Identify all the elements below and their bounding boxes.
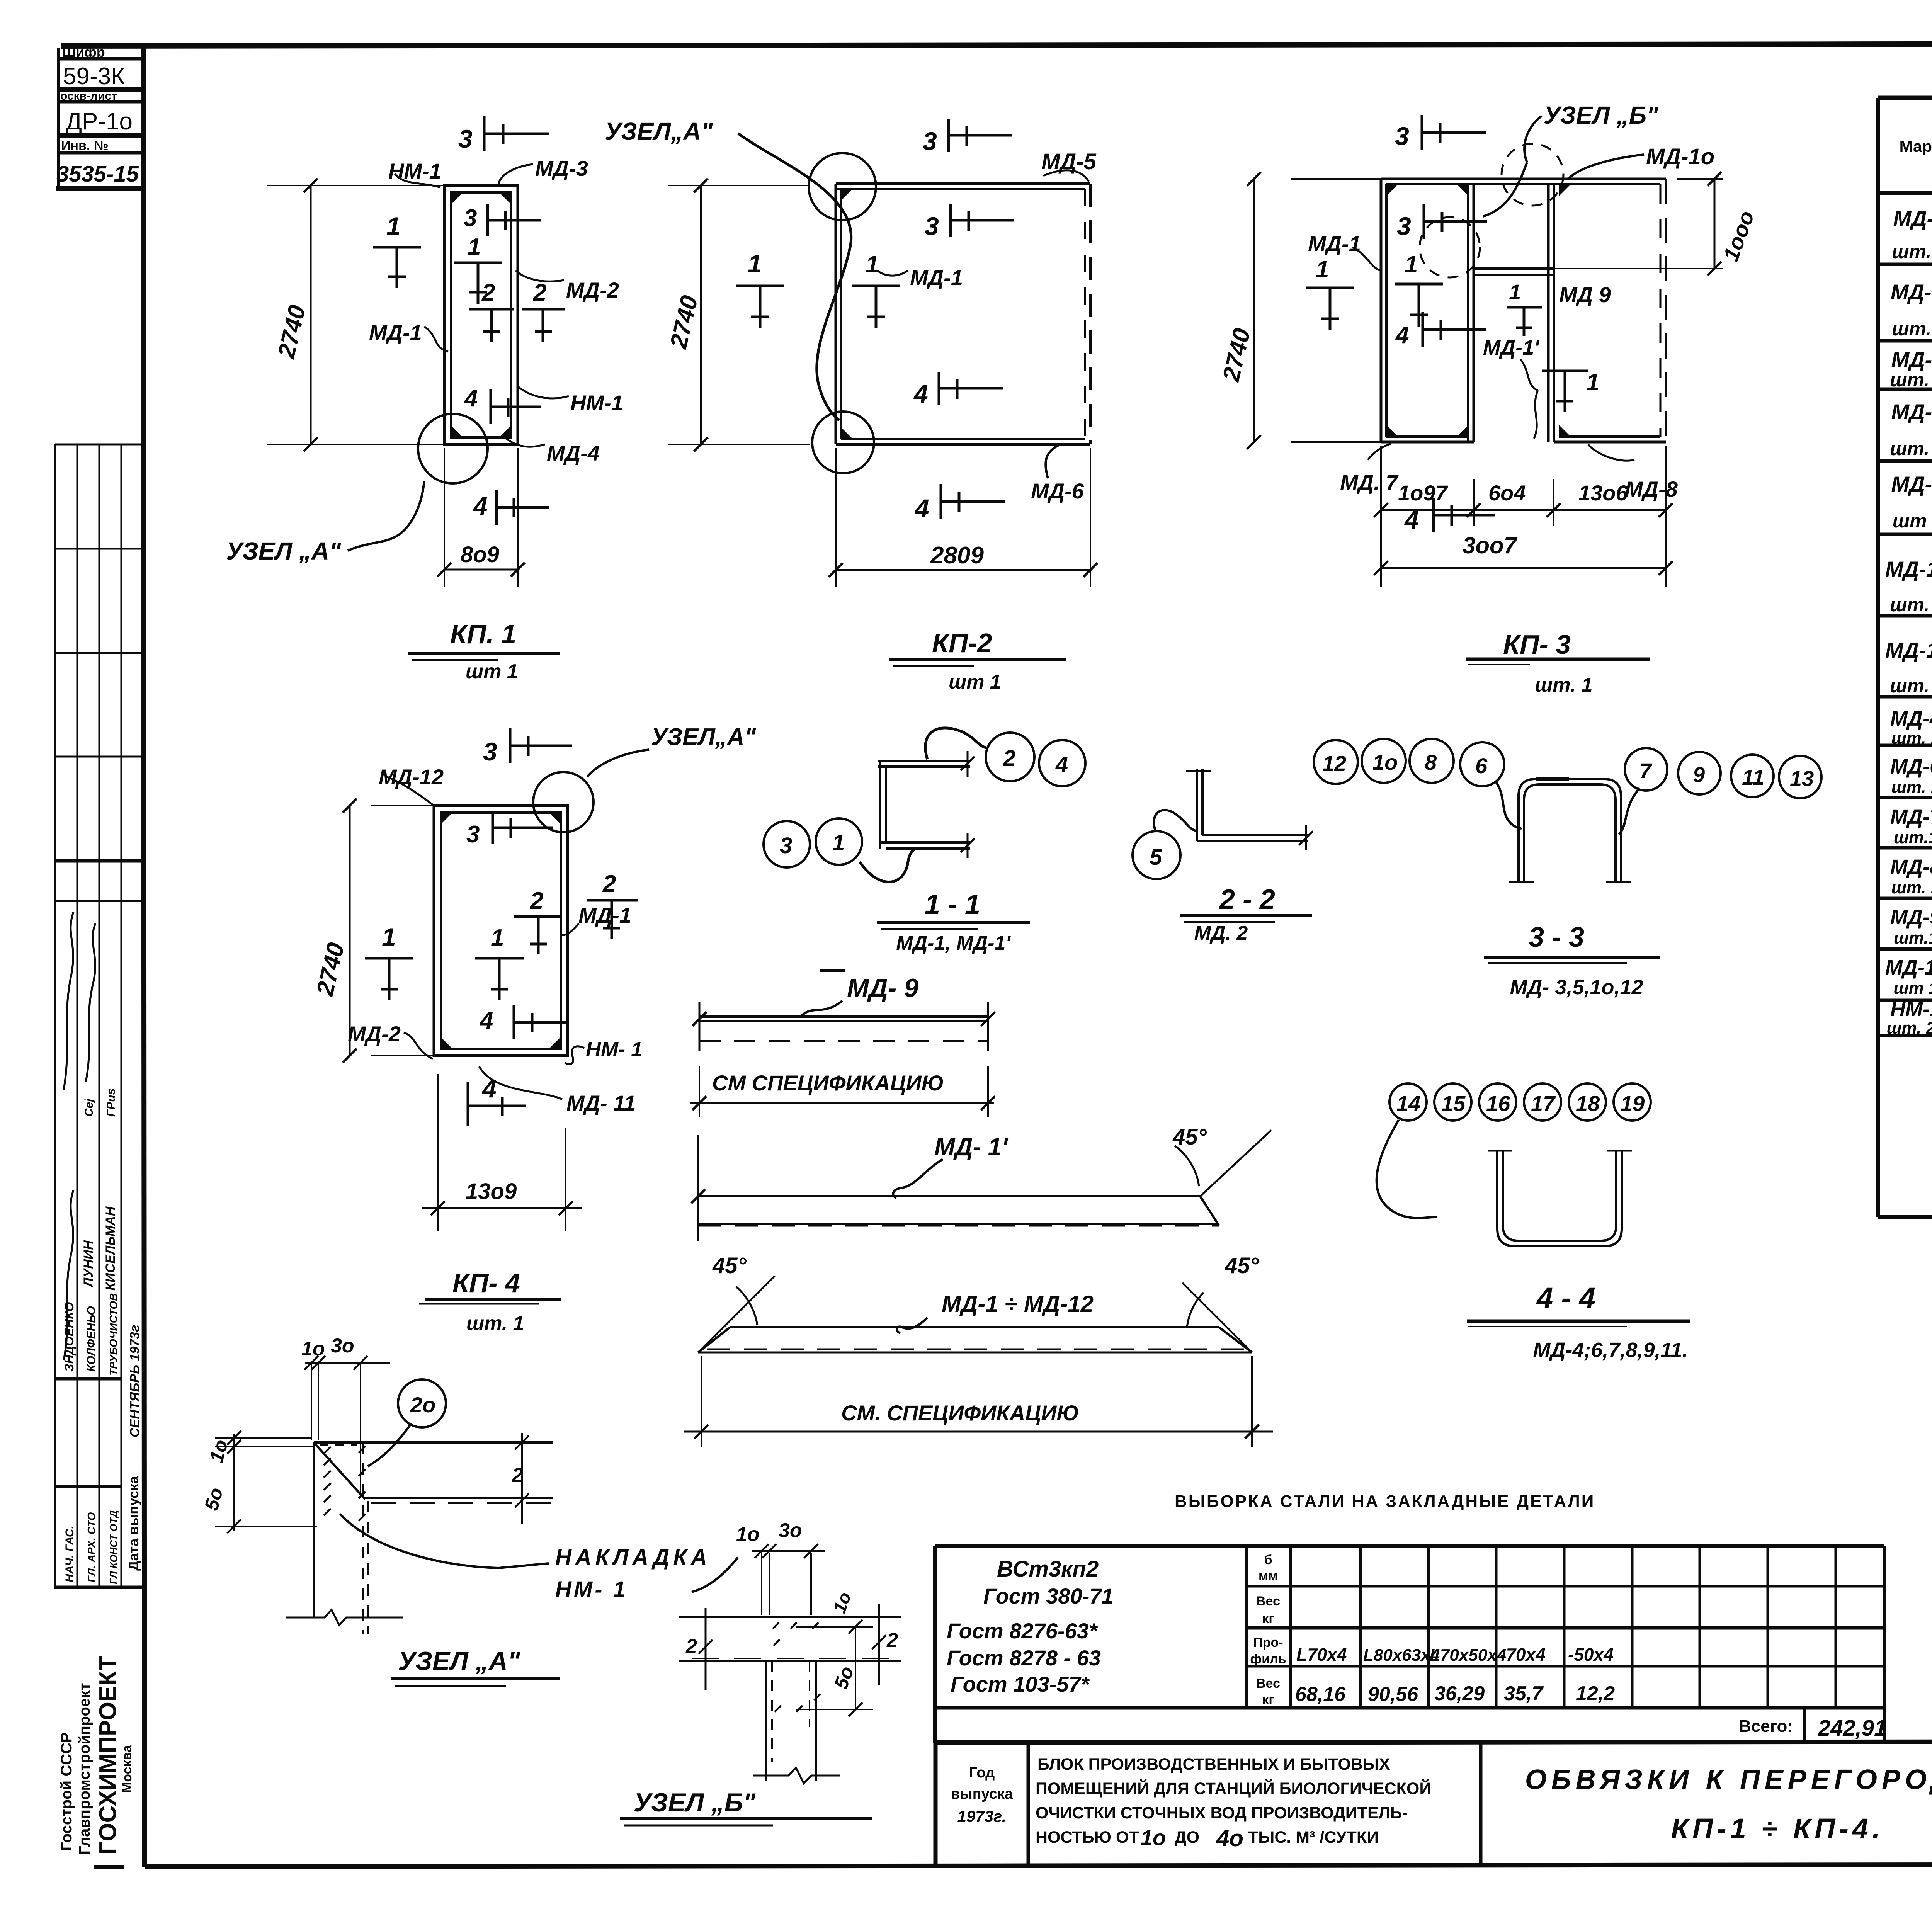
svg-text:МД-12: МД-12 bbox=[379, 765, 444, 789]
svg-text:1о: 1о bbox=[829, 1589, 855, 1616]
svg-text:5: 5 bbox=[1150, 845, 1162, 870]
svg-text:45°: 45° bbox=[1225, 1253, 1259, 1278]
svg-text:ОЧИСТКИ СТОЧНЫХ ВОД ПРОИЗВО: ОЧИСТКИ СТОЧНЫХ ВОД ПРОИЗВОДИТЕЛЬ- bbox=[1036, 1804, 1408, 1822]
svg-text:ТРУБОЧИСТОВ: ТРУБОЧИСТОВ bbox=[107, 1293, 119, 1376]
svg-text:НМ- 1: НМ- 1 bbox=[586, 1038, 643, 1061]
svg-text:МД-1': МД-1' bbox=[1483, 336, 1540, 359]
svg-text:2: 2 bbox=[602, 871, 616, 897]
svg-text:45°: 45° bbox=[712, 1253, 747, 1278]
svg-text:ТЫС. М³ /СУТКИ: ТЫС. М³ /СУТКИ bbox=[1248, 1828, 1379, 1847]
svg-text:L70х50х4: L70х50х4 bbox=[1430, 1646, 1506, 1665]
svg-text:1: 1 bbox=[748, 249, 762, 278]
svg-text:ГЛ КОНСТ ОТД: ГЛ КОНСТ ОТД bbox=[108, 1510, 119, 1584]
svg-text:6: 6 bbox=[1475, 753, 1488, 778]
svg-text:4: 4 bbox=[473, 492, 488, 520]
svg-text:УЗЕЛ„А": УЗЕЛ„А" bbox=[605, 117, 713, 145]
svg-text:17: 17 bbox=[1531, 1091, 1556, 1116]
svg-text:ГОСХИМПРОЕКТ: ГОСХИМПРОЕКТ bbox=[95, 1656, 121, 1855]
svg-text:2 - 2: 2 - 2 bbox=[1219, 884, 1275, 915]
svg-text:КП- 3: КП- 3 bbox=[1503, 629, 1571, 660]
svg-text:90,56: 90,56 bbox=[1368, 1683, 1418, 1706]
svg-text:БЛОК ПРОИЗВОДСТВЕННЫХ И БЫТ: БЛОК ПРОИЗВОДСТВЕННЫХ И БЫТОВЫХ bbox=[1037, 1755, 1390, 1774]
svg-text:шт.1: шт.1 bbox=[1894, 929, 1932, 947]
svg-text:3: 3 bbox=[923, 127, 937, 155]
svg-text:МД-1: МД-1 bbox=[369, 320, 422, 345]
svg-text:-70х4: -70х4 bbox=[1500, 1645, 1546, 1665]
svg-text:МД- 3,5,1о,12: МД- 3,5,1о,12 bbox=[1510, 976, 1643, 999]
svg-text:Гост 8276-63*: Гост 8276-63* bbox=[947, 1619, 1098, 1643]
svg-text:НМ- 1: НМ- 1 bbox=[555, 1577, 628, 1602]
svg-text:1: 1 bbox=[468, 234, 481, 260]
svg-text:4: 4 bbox=[1404, 505, 1419, 534]
svg-text:ВЫБОРКА СТАЛИ НА ЗАКЛАДНЫЕ: ВЫБОРКА СТАЛИ НА ЗАКЛАДНЫЕ ДЕТАЛИ bbox=[1175, 1492, 1595, 1511]
svg-text:Москва: Москва bbox=[120, 1745, 134, 1793]
svg-text:2: 2 bbox=[481, 279, 495, 306]
svg-text:2: 2 bbox=[533, 279, 546, 306]
svg-text:шт. 1: шт. 1 bbox=[1890, 675, 1932, 697]
svg-text:МД-1: МД-1 bbox=[1893, 206, 1932, 231]
svg-text:4: 4 bbox=[1055, 752, 1068, 777]
svg-text:8: 8 bbox=[1425, 750, 1437, 774]
svg-text:НМ-1: НМ-1 bbox=[388, 159, 441, 183]
svg-text:МД-1: МД-1 bbox=[1308, 231, 1361, 256]
svg-text:МД-2: МД-2 bbox=[348, 1022, 401, 1046]
svg-text:б: б bbox=[1264, 1553, 1272, 1567]
svg-text:1: 1 bbox=[832, 830, 845, 855]
svg-text:11: 11 bbox=[1742, 765, 1764, 789]
svg-text:МД-8: МД-8 bbox=[1890, 855, 1932, 879]
svg-text:шт. 4: шт. 4 bbox=[1892, 241, 1932, 262]
svg-text:1973г.: 1973г. bbox=[957, 1807, 1007, 1825]
svg-text:1о: 1о bbox=[736, 1523, 760, 1546]
svg-text:-50х4: -50х4 bbox=[1568, 1645, 1614, 1665]
svg-text:7: 7 bbox=[1639, 759, 1653, 783]
svg-text:НМ-1: НМ-1 bbox=[570, 391, 623, 415]
svg-text:оскв-лист: оскв-лист bbox=[60, 90, 117, 102]
svg-text:45°: 45° bbox=[1172, 1124, 1207, 1150]
svg-text:13о9: 13о9 bbox=[466, 1179, 517, 1204]
svg-text:НМ-1: НМ-1 bbox=[1890, 998, 1932, 1021]
svg-text:МД. 7: МД. 7 bbox=[1340, 470, 1399, 495]
svg-text:филь: филь bbox=[1250, 1652, 1286, 1667]
svg-text:6о4: 6о4 bbox=[1488, 481, 1526, 505]
svg-text:2740: 2740 bbox=[273, 303, 311, 361]
svg-text:2: 2 bbox=[530, 888, 543, 914]
svg-text:1: 1 bbox=[866, 251, 879, 278]
svg-text:4: 4 bbox=[481, 1074, 497, 1103]
svg-text:МД-6: МД-6 bbox=[1031, 479, 1084, 503]
svg-text:КИСЕЛЬМАН: КИСЕЛЬМАН bbox=[103, 1206, 118, 1291]
svg-text:3: 3 bbox=[1395, 122, 1409, 150]
svg-text:4: 4 bbox=[914, 494, 929, 522]
svg-text:4: 4 bbox=[464, 385, 478, 412]
svg-text:68,16: 68,16 bbox=[1295, 1683, 1346, 1706]
svg-text:Шифр: Шифр bbox=[62, 44, 105, 60]
svg-text:НОСТЬЮ ОТ: НОСТЬЮ ОТ bbox=[1036, 1828, 1139, 1847]
svg-text:3: 3 bbox=[458, 124, 473, 153]
svg-text:4о: 4о bbox=[1216, 1825, 1243, 1851]
svg-text:1: 1 bbox=[1405, 251, 1418, 278]
svg-text:3535-15: 3535-15 bbox=[56, 162, 139, 187]
svg-text:9: 9 bbox=[1693, 762, 1705, 787]
svg-text:L70х4: L70х4 bbox=[1296, 1645, 1347, 1665]
svg-text:15: 15 bbox=[1441, 1091, 1466, 1116]
svg-text:13о6: 13о6 bbox=[1578, 481, 1628, 505]
svg-text:8о9: 8о9 bbox=[461, 542, 499, 567]
svg-text:1: 1 bbox=[386, 212, 401, 240]
svg-text:Про-: Про- bbox=[1253, 1635, 1283, 1650]
svg-text:МД-1': МД-1' bbox=[1891, 280, 1932, 304]
svg-text:МД-11: МД-11 bbox=[1885, 956, 1932, 979]
svg-text:2: 2 bbox=[1003, 746, 1015, 771]
svg-text:УЗЕЛ „А": УЗЕЛ „А" bbox=[226, 537, 341, 565]
svg-text:1: 1 bbox=[1586, 369, 1599, 396]
svg-text:Гост 380-71: Гост 380-71 bbox=[983, 1584, 1114, 1608]
svg-text:шт. 1: шт. 1 bbox=[1891, 778, 1932, 797]
svg-text:4: 4 bbox=[913, 379, 928, 408]
svg-text:2: 2 bbox=[512, 1464, 523, 1486]
svg-text:шт. 1: шт. 1 bbox=[1891, 729, 1932, 748]
svg-text:2740: 2740 bbox=[311, 940, 349, 998]
svg-text:МД- 9: МД- 9 bbox=[847, 973, 918, 1003]
svg-text:Сej: Сej bbox=[83, 1099, 95, 1117]
svg-text:1о: 1о bbox=[206, 1437, 232, 1465]
svg-text:шт. 26: шт. 26 bbox=[1886, 1019, 1932, 1037]
svg-text:1 - 1: 1 - 1 bbox=[925, 889, 980, 920]
svg-text:МД 9: МД 9 bbox=[1559, 282, 1611, 307]
svg-text:4: 4 bbox=[479, 1007, 493, 1034]
svg-text:ГРus: ГРus bbox=[105, 1088, 117, 1117]
svg-text:3: 3 bbox=[483, 737, 497, 766]
svg-text:5о: 5о bbox=[201, 1485, 227, 1513]
svg-text:МД. 2: МД. 2 bbox=[1194, 922, 1248, 944]
svg-text:шт 1: шт 1 bbox=[949, 671, 1001, 693]
svg-text:Вес: Вес bbox=[1256, 1676, 1280, 1691]
svg-text:МД-1 ÷ МД-12: МД-1 ÷ МД-12 bbox=[942, 1291, 1094, 1317]
svg-text:19: 19 bbox=[1621, 1091, 1645, 1116]
svg-text:шт 1: шт 1 bbox=[466, 660, 518, 683]
svg-text:1о: 1о bbox=[1141, 1825, 1166, 1850]
svg-text:МД-4: МД-4 bbox=[547, 441, 600, 465]
svg-text:МД-9: МД-9 bbox=[1890, 906, 1932, 929]
svg-text:МД-12: МД-12 bbox=[1885, 638, 1932, 662]
svg-text:шт. 1: шт. 1 bbox=[1891, 878, 1932, 897]
svg-text:КП-1 ÷ КП-4.: КП-1 ÷ КП-4. bbox=[1671, 1813, 1884, 1845]
svg-text:Госстрой СССР: Госстрой СССР bbox=[58, 1732, 75, 1851]
svg-text:Гост 103-57*: Гост 103-57* bbox=[951, 1672, 1090, 1696]
svg-text:СЕНТЯБРЬ 1973г: СЕНТЯБРЬ 1973г bbox=[128, 1325, 142, 1437]
svg-text:L80х63х4: L80х63х4 bbox=[1363, 1646, 1440, 1665]
svg-text:УЗЕЛ„А": УЗЕЛ„А" bbox=[651, 724, 756, 750]
svg-text:МД-3: МД-3 bbox=[535, 156, 588, 180]
svg-text:шт.1: шт.1 bbox=[1894, 828, 1932, 847]
svg-text:МД- 11: МД- 11 bbox=[566, 1091, 636, 1115]
svg-text:ДР-1о: ДР-1о bbox=[66, 108, 133, 135]
svg-text:Вес: Вес bbox=[1256, 1594, 1280, 1609]
svg-text:2о: 2о bbox=[410, 1393, 435, 1417]
svg-text:КП. 1: КП. 1 bbox=[450, 619, 516, 649]
svg-text:16: 16 bbox=[1486, 1091, 1510, 1116]
svg-text:13: 13 bbox=[1790, 766, 1814, 791]
svg-text:1о97: 1о97 bbox=[1398, 481, 1448, 505]
svg-text:УЗЕЛ „Б": УЗЕЛ „Б" bbox=[634, 1788, 756, 1817]
svg-text:3о: 3о bbox=[779, 1519, 802, 1542]
svg-text:МД-3: МД-3 bbox=[1891, 400, 1932, 424]
svg-text:шт. 2: шт. 2 bbox=[1892, 318, 1932, 340]
svg-text:МД-5: МД-5 bbox=[1891, 472, 1932, 496]
svg-text:3 - 3: 3 - 3 bbox=[1529, 922, 1584, 953]
svg-text:КОЛФЕНЬО: КОЛФЕНЬО bbox=[85, 1306, 98, 1372]
svg-text:ОБВЯЗКИ К ПЕРЕГОРОДКАМ: ОБВЯЗКИ К ПЕРЕГОРОДКАМ bbox=[1525, 1764, 1932, 1795]
svg-text:МД- 1': МД- 1' bbox=[934, 1133, 1008, 1161]
svg-text:2809: 2809 bbox=[930, 542, 984, 569]
svg-text:шт 1: шт 1 bbox=[1893, 510, 1932, 532]
svg-text:35,7: 35,7 bbox=[1504, 1682, 1544, 1705]
svg-text:Инв. №: Инв. № bbox=[61, 138, 109, 153]
svg-text:3: 3 bbox=[466, 821, 480, 848]
svg-text:мм: мм bbox=[1259, 1569, 1278, 1583]
svg-text:ПОМЕЩЕНИЙ ДЛЯ СТАНЦИЙ БИОЛОГИЧ: ПОМЕЩЕНИЙ ДЛЯ СТАНЦИЙ БИОЛОГИЧЕСКОЙ bbox=[1036, 1779, 1431, 1798]
svg-text:МД-4: МД-4 bbox=[1890, 707, 1932, 730]
svg-text:МД-1: МД-1 bbox=[910, 265, 963, 290]
svg-text:шт 1: шт 1 bbox=[1894, 979, 1932, 998]
svg-text:КП-2: КП-2 bbox=[932, 628, 992, 658]
svg-text:МД-7: МД-7 bbox=[1890, 805, 1932, 828]
svg-text:4: 4 bbox=[1395, 322, 1409, 349]
svg-text:Год: Год bbox=[969, 1765, 995, 1781]
svg-text:2740: 2740 bbox=[665, 293, 703, 351]
svg-text:3: 3 bbox=[1397, 212, 1411, 240]
svg-text:НАКЛАДКА: НАКЛАДКА bbox=[555, 1545, 711, 1570]
svg-text:1: 1 bbox=[1316, 256, 1329, 283]
svg-text:СМ СПЕЦИФИКАЦИЮ: СМ СПЕЦИФИКАЦИЮ bbox=[712, 1071, 944, 1095]
svg-text:МД-4;6,7,8,9,11.: МД-4;6,7,8,9,11. bbox=[1533, 1338, 1688, 1362]
svg-text:3оо7: 3оо7 bbox=[1463, 532, 1518, 558]
svg-text:МД-6: МД-6 bbox=[1890, 755, 1932, 778]
svg-text:ВСт3кп2: ВСт3кп2 bbox=[997, 1556, 1099, 1582]
svg-text:3о: 3о bbox=[331, 1335, 354, 1357]
svg-text:3: 3 bbox=[780, 833, 792, 858]
svg-text:СМ. СПЕЦИФИКАЦИЮ: СМ. СПЕЦИФИКАЦИЮ bbox=[841, 1401, 1079, 1425]
svg-text:выпуска: выпуска bbox=[951, 1786, 1013, 1802]
svg-text:МД-1: МД-1 bbox=[578, 903, 631, 927]
svg-text:Марка: Марка bbox=[1900, 137, 1932, 155]
svg-text:1: 1 bbox=[382, 923, 396, 951]
svg-text:МД-2: МД-2 bbox=[1891, 347, 1932, 372]
svg-text:кг: кг bbox=[1262, 1692, 1274, 1707]
svg-text:14: 14 bbox=[1396, 1091, 1420, 1116]
svg-text:МД-8: МД-8 bbox=[1625, 477, 1678, 501]
svg-text:МД-10: МД-10 bbox=[1885, 557, 1932, 581]
svg-text:1: 1 bbox=[491, 925, 504, 951]
svg-text:КП- 4: КП- 4 bbox=[452, 1268, 520, 1298]
svg-text:ЗНДОЕНКО: ЗНДОЕНКО bbox=[62, 1302, 76, 1372]
svg-text:МД-1, МД-1': МД-1, МД-1' bbox=[896, 932, 1011, 954]
svg-text:18: 18 bbox=[1576, 1091, 1600, 1116]
svg-text:НАЧ. ГАС.: НАЧ. ГАС. bbox=[63, 1526, 76, 1582]
svg-text:ДО: ДО bbox=[1175, 1828, 1199, 1847]
svg-text:МД-2: МД-2 bbox=[566, 278, 619, 302]
svg-text:36,29: 36,29 bbox=[1434, 1682, 1485, 1705]
svg-text:шт. 1: шт. 1 bbox=[1890, 438, 1932, 459]
svg-text:2740: 2740 bbox=[1218, 326, 1255, 384]
svg-text:шт. 1: шт. 1 bbox=[466, 1312, 524, 1335]
svg-text:Главпромстройпроект: Главпромстройпроект bbox=[76, 1683, 93, 1855]
svg-text:1: 1 bbox=[1509, 280, 1521, 304]
svg-text:шт. 1: шт. 1 bbox=[1535, 674, 1593, 696]
svg-text:шт. 2: шт. 2 bbox=[1890, 369, 1932, 391]
svg-text:5о: 5о bbox=[830, 1663, 858, 1692]
svg-text:3: 3 bbox=[925, 212, 939, 240]
svg-text:МД-5: МД-5 bbox=[1041, 149, 1097, 174]
svg-text:Всего:: Всего: bbox=[1739, 1717, 1793, 1736]
svg-text:12,2: 12,2 bbox=[1576, 1682, 1615, 1705]
svg-text:1о: 1о bbox=[1372, 750, 1398, 774]
svg-text:2: 2 bbox=[886, 1629, 898, 1651]
svg-text:ЛУНИН: ЛУНИН bbox=[81, 1240, 96, 1288]
svg-text:242,91: 242,91 bbox=[1818, 1716, 1886, 1741]
svg-text:УЗЕЛ „А": УЗЕЛ „А" bbox=[398, 1646, 520, 1676]
svg-text:ГЛ. АРХ. СТО: ГЛ. АРХ. СТО bbox=[85, 1512, 97, 1582]
svg-text:Дата выпуска: Дата выпуска bbox=[126, 1476, 141, 1571]
svg-text:1ооо: 1ооо bbox=[1718, 207, 1759, 264]
svg-text:1о: 1о bbox=[301, 1338, 325, 1360]
svg-text:59-3К: 59-3К bbox=[63, 63, 125, 90]
svg-text:УЗЕЛ „Б": УЗЕЛ „Б" bbox=[1544, 101, 1658, 129]
svg-text:Гост 8278 - 63: Гост 8278 - 63 bbox=[947, 1646, 1101, 1670]
svg-text:кг: кг bbox=[1262, 1611, 1274, 1626]
svg-text:МД-1о: МД-1о bbox=[1646, 144, 1714, 169]
svg-text:3: 3 bbox=[464, 205, 477, 231]
svg-text:12: 12 bbox=[1322, 751, 1346, 776]
svg-text:4 - 4: 4 - 4 bbox=[1536, 1282, 1595, 1315]
svg-text:2: 2 bbox=[685, 1635, 697, 1658]
svg-text:шт. 1: шт. 1 bbox=[1890, 594, 1932, 616]
